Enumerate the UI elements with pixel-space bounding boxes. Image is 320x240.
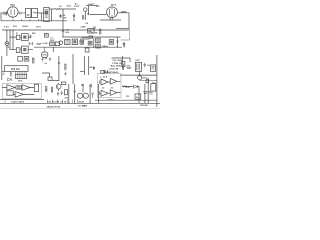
transistor Q1	[84, 8, 88, 12]
svg-text:35W4: 35W4	[121, 11, 128, 14]
bottom faint frame	[0, 108, 160, 110]
wire verticals	[10, 30, 13, 50]
pot box P2	[122, 62, 125, 67]
svg-text:.05: .05	[147, 65, 150, 67]
resistor R4	[10, 72, 12, 77]
wire: heater bus	[1, 13, 67, 21]
capacitor C13	[57, 92, 59, 96]
wire right border	[156, 55, 158, 107]
capacitor C12	[93, 66, 95, 70]
box B18	[135, 94, 141, 99]
box B8	[96, 38, 101, 43]
resistor R3 vertical	[32, 57, 34, 63]
wire	[52, 79, 59, 81]
box B15	[7, 91, 13, 95]
wire faint right	[121, 29, 130, 40]
svg-text:LOUD 2M: LOUD 2M	[109, 69, 119, 71]
speaker box SP1	[151, 65, 156, 71]
wire from T1	[51, 9, 53, 21]
wire	[2, 87, 34, 89]
svg-text:150: 150	[126, 96, 129, 98]
svg-text:10K .02 47K .05 1K: 10K .02 47K .05 1K	[47, 100, 67, 103]
wire verticals	[105, 70, 108, 74]
wire: AVC bus	[63, 36, 121, 38]
capacitor C14	[61, 91, 63, 95]
wire	[42, 73, 50, 77]
svg-text:1M: 1M	[89, 86, 92, 88]
oscillator G1	[42, 52, 48, 58]
connector J1	[15, 74, 26, 78]
transistor Q4	[56, 84, 61, 89]
svg-text:.02: .02	[111, 87, 114, 89]
svg-text:OSC: OSC	[43, 55, 48, 57]
output tube V2	[107, 7, 118, 18]
wire	[108, 81, 121, 93]
wire left lower	[2, 56, 5, 80]
svg-text:AM: AM	[88, 30, 92, 33]
small box top	[61, 82, 65, 85]
small part above frame	[101, 71, 104, 74]
svg-text:2N404 CK722: 2N404 CK722	[47, 106, 62, 109]
box B16	[64, 90, 67, 95]
resistor R11 vertical	[90, 84, 92, 88]
small part	[81, 85, 84, 86]
box B14	[34, 84, 38, 91]
wire vertical	[93, 39, 95, 48]
wire bus y47.2	[34, 46, 122, 48]
part under T1	[45, 34, 49, 38]
svg-text:6.3V: 6.3V	[4, 27, 9, 29]
resistor R8	[16, 86, 22, 89]
resistor R5 vertical	[65, 64, 67, 71]
transistor Q5	[77, 93, 82, 98]
capacitor C15	[144, 63, 146, 68]
wire	[13, 93, 34, 95]
wire	[122, 85, 139, 87]
wire verticals	[69, 84, 75, 103]
svg-text:.02: .02	[44, 63, 47, 65]
AC plug P1	[4, 11, 7, 15]
wire	[49, 9, 76, 30]
op-amp U10	[101, 90, 108, 96]
op-amp U6	[22, 85, 30, 91]
capacitor C10	[49, 57, 51, 61]
box B10	[85, 48, 89, 52]
capacitor C4	[96, 5, 100, 7]
amp frame F2	[97, 74, 121, 98]
IC U3	[5, 66, 28, 72]
box B19	[48, 77, 52, 80]
box B6	[80, 40, 84, 44]
svg-text:275V: 275V	[74, 6, 80, 8]
resistor R10 vertical	[51, 87, 53, 93]
rectifier box A2	[32, 9, 38, 18]
box B5	[89, 36, 93, 38]
box B1	[50, 42, 55, 46]
wire vertical	[122, 56, 124, 64]
small part near x59	[58, 62, 60, 63]
wire verticals	[84, 56, 88, 75]
detector box U2	[22, 46, 29, 53]
transistor Q2	[59, 41, 63, 45]
amp frame F1	[2, 83, 41, 98]
capacitor C6	[31, 42, 33, 46]
box B11	[109, 40, 114, 45]
resistor R9 vertical	[45, 86, 47, 92]
svg-text:47K: 47K	[144, 92, 148, 95]
wire	[95, 99, 157, 101]
wire	[80, 70, 84, 72]
svg-text:2.2M: 2.2M	[42, 43, 47, 45]
grid cluster parts	[93, 27, 96, 30]
output transformer T4	[135, 62, 141, 71]
output box B17	[151, 84, 156, 92]
diode D2	[8, 78, 12, 81]
wire row1	[10, 36, 31, 38]
wire vertical x58.9	[58, 56, 60, 80]
power transformer T1	[44, 8, 49, 22]
op-amp U7	[15, 92, 23, 98]
svg-text:BAL 250K: BAL 250K	[111, 65, 122, 68]
transistor Q3	[138, 76, 142, 80]
diode D3	[134, 85, 138, 88]
wire B+ right	[116, 27, 129, 29]
resistor R13 vertical	[99, 29, 101, 35]
small box on wire	[146, 80, 149, 83]
svg-text:OSC: OSC	[18, 80, 23, 82]
small part	[30, 35, 32, 39]
op-amp U5	[7, 85, 15, 91]
svg-text:2N109: 2N109	[78, 102, 84, 104]
wire verticals right	[139, 78, 148, 103]
resistor R6 vertical	[122, 64, 124, 70]
wire: AC line input	[1, 12, 8, 14]
svg-text:1K: 1K	[59, 6, 62, 8]
wire left vertical	[6, 30, 8, 56]
op-amp U8	[101, 79, 108, 85]
wire	[80, 38, 89, 40]
box B2	[55, 42, 59, 46]
wire: B+ bus	[2, 29, 129, 31]
svg-text:12AV6: 12AV6	[22, 25, 28, 28]
junction legs	[5, 99, 78, 103]
svg-text:455 KC: 455 KC	[11, 68, 20, 71]
wire top	[86, 5, 97, 7]
part below meter	[8, 46, 10, 47]
svg-text:455kc: 455kc	[82, 36, 89, 39]
box B9	[96, 44, 101, 48]
small part	[87, 12, 89, 15]
wire	[143, 92, 153, 95]
box B13	[24, 57, 29, 62]
wire	[140, 79, 157, 82]
svg-text:50C5: 50C5	[142, 78, 147, 80]
small part	[117, 41, 119, 43]
capacitor C7 on B+ drop	[62, 30, 64, 32]
resistor R1	[55, 8, 60, 10]
wire vertical	[117, 37, 119, 47]
capacitor C9	[41, 58, 43, 62]
wire vertical x73	[72, 54, 74, 84]
wire	[120, 71, 157, 75]
op-amp U9	[110, 78, 117, 84]
junction dots	[6, 14, 148, 104]
wire vertical	[52, 47, 54, 52]
capacitor C5	[29, 42, 31, 46]
coil box L1 on B+ bus	[88, 29, 94, 34]
capacitor C8	[123, 42, 125, 47]
wire	[38, 13, 44, 21]
resistor R2	[37, 43, 42, 45]
wire	[85, 6, 106, 20]
svg-text:PHONO: PHONO	[140, 105, 148, 107]
svg-text:OUT: OUT	[135, 60, 140, 62]
capacitor C16 on x74.7	[74, 91, 76, 92]
capacitor C11	[64, 72, 66, 76]
wire verticals	[83, 84, 90, 103]
capacitor C3	[73, 14, 75, 21]
IF transformer T2	[16, 35, 20, 39]
svg-text:VOL 500K: VOL 500K	[112, 60, 123, 62]
IF transformer T3	[16, 48, 20, 53]
resistor R14	[123, 86, 127, 88]
capacitor C2	[59, 14, 61, 18]
wire	[112, 58, 131, 62]
svg-text:.02: .02	[102, 87, 105, 89]
svg-text:47K: 47K	[65, 97, 69, 100]
converter box U1	[22, 34, 29, 41]
op-amp U11	[110, 90, 117, 96]
wire row2	[10, 49, 33, 51]
svg-text:OA2: OA2	[67, 4, 72, 7]
rectifier tube V1	[8, 7, 19, 18]
box B3	[65, 40, 71, 45]
small parts	[92, 93, 95, 98]
IC pins	[15, 71, 26, 74]
terminal legs on heater bus	[13, 19, 39, 21]
capacitor C1	[18, 12, 25, 15]
wire from V2 plate	[117, 13, 129, 28]
svg-text:50C5: 50C5	[111, 4, 117, 6]
wire under V2	[100, 17, 121, 20]
svg-text:220K: 220K	[81, 26, 87, 28]
box B12	[18, 57, 23, 62]
filter box A1	[26, 9, 32, 18]
svg-text:L .02 R: L .02 R	[101, 77, 108, 79]
svg-text:117V: 117V	[36, 27, 42, 29]
label inside A2	[33, 12, 35, 14]
svg-text:12AX7 6AU6: 12AX7 6AU6	[11, 100, 25, 103]
wire vertical x63	[62, 32, 64, 37]
resistor R7	[126, 67, 131, 69]
resistor R12 vertical	[82, 15, 84, 20]
box B7	[88, 41, 92, 45]
wire vertical	[97, 84, 99, 103]
svg-text:12BA6: 12BA6	[102, 45, 108, 48]
wire buses bottom	[0, 99, 160, 103]
small part	[3, 73, 5, 74]
transistor Q6	[83, 93, 88, 98]
box B4	[72, 39, 77, 44]
meter M1	[5, 42, 9, 46]
svg-text:GND: GND	[83, 105, 88, 107]
